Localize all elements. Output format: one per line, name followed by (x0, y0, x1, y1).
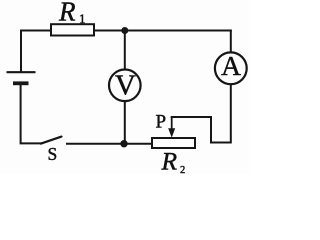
resistor R1 box (51, 24, 94, 35)
junction dot: top node between R1 and ammeter branch (121, 27, 128, 34)
wire: voltmeter bottom lead from circle down to bottom junction (124, 101, 126, 144)
rheostat R2 box (152, 138, 195, 148)
battery cell: long thin positive plate (7, 71, 36, 73)
label R2 (161, 146, 186, 176)
wire: battery negative down to bottom-left corner then right to switch pivot (21, 85, 41, 143)
junction dot: bottom node between switch, voltmeter and rheostat (120, 140, 127, 147)
svg-text:1: 1 (79, 11, 86, 26)
label R1 (58, 0, 86, 27)
svg-text:V: V (115, 70, 136, 102)
switch S blade (open, angled) (41, 137, 62, 144)
wire: ammeter bottom lead down, left, up to slider arm of rheostat (172, 84, 231, 142)
svg-text:S: S (48, 144, 58, 164)
svg-text:2: 2 (180, 165, 185, 174)
battery cell: short thick negative plate (13, 81, 29, 85)
wire: right vertical from top-right corner down to ammeter top (230, 31, 232, 53)
ammeter A (circle) (215, 52, 247, 84)
wire: voltmeter top lead from junction down to voltmeter circle (124, 31, 126, 70)
rheostat slider arrow (vertical shaft + filled head pointing down onto box) (168, 117, 175, 138)
wire: bottom junction right to rheostat left terminal (124, 143, 152, 145)
wire: switch right contact to bottom junction (67, 143, 124, 145)
svg-text:P: P (156, 112, 167, 133)
svg-text:A: A (221, 50, 241, 81)
svg-text:R: R (161, 146, 178, 174)
wire: top horizontal bus from left corner to right corner (21, 30, 231, 32)
wire: left vertical from top-left corner down to battery positive plate (20, 31, 22, 72)
voltmeter V (circle) (109, 70, 141, 102)
svg-text:R: R (58, 0, 76, 27)
